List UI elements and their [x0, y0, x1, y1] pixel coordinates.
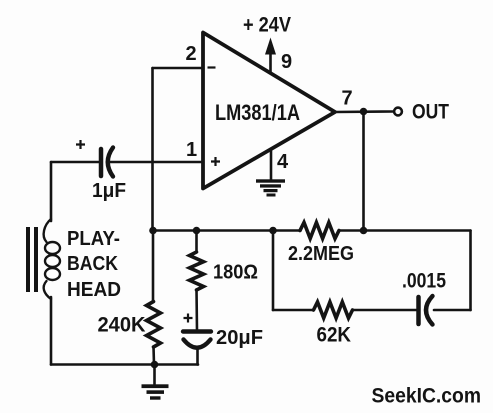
svg-text:20μF: 20μF — [216, 327, 263, 349]
svg-text:OUT: OUT — [412, 101, 449, 124]
svg-text:240K: 240K — [98, 314, 146, 337]
svg-text:9: 9 — [281, 51, 292, 73]
svg-text:2: 2 — [186, 43, 197, 65]
svg-text:1: 1 — [186, 139, 197, 161]
svg-text:1μF: 1μF — [92, 180, 126, 202]
svg-text:7: 7 — [342, 88, 353, 110]
svg-text:.0015: .0015 — [402, 270, 446, 293]
svg-text:4: 4 — [277, 151, 289, 173]
svg-text:+ 24V: + 24V — [243, 14, 291, 37]
svg-text:HEAD: HEAD — [67, 279, 121, 301]
svg-text:BACK: BACK — [67, 253, 118, 275]
svg-text:62K: 62K — [317, 324, 352, 347]
svg-text:180Ω: 180Ω — [213, 262, 258, 284]
svg-text:SeekIC.com: SeekIC.com — [372, 385, 482, 408]
svg-text:PLAY-: PLAY- — [67, 228, 120, 250]
svg-text:LM381/1A: LM381/1A — [215, 100, 300, 125]
svg-text:2.2MEG: 2.2MEG — [288, 243, 354, 265]
